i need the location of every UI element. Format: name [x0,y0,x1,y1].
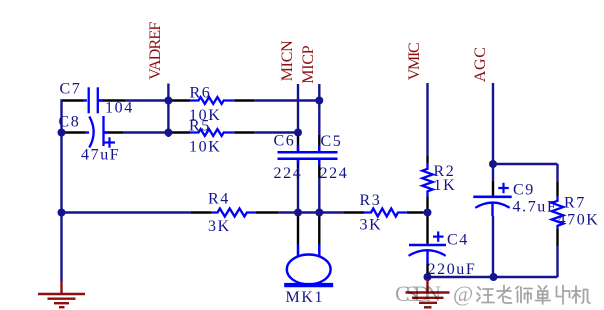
svg-text:MICN: MICN [279,40,296,81]
resistor R4 [211,209,256,217]
resistor R6 [190,97,234,104]
wire: R5 row from VADREF to MICN rail (y=132.5) [168,131,298,133]
node MICN rail x=298 [297,84,299,245]
svg-text:10K: 10K [189,139,221,156]
junction (168.4,100.5) [164,97,172,105]
svg-text:@: @ [453,281,473,306]
junction (61.5,212.5) [58,209,66,217]
wire: C8 row horizontal (y=132.5) [62,131,169,133]
svg-text:AGC: AGC [472,47,489,82]
wire: left vertical rail x=61.5 [60,99,62,281]
svg-text:104: 104 [105,100,134,117]
svg-text:470K: 470K [558,212,600,229]
svg-text:C5: C5 [321,133,343,150]
wire: R6 row from VADREF to MICP rail (y=100.5) [168,99,319,101]
svg-text:VMIC: VMIC [406,42,423,80]
junction (427.5,277) [424,273,432,281]
node VMIC rail x=427.5 [426,83,428,277]
node MICP rail x=319.3 [318,84,320,245]
ground (under C4) [406,279,450,307]
node AGC rail x=493 [492,83,494,277]
svg-text:VADREF: VADREF [147,22,164,80]
svg-text:224: 224 [320,165,349,182]
svg-text:C8: C8 [59,114,81,131]
capacitor C4 (polarized) [409,231,446,264]
svg-text:3K: 3K [208,218,231,235]
svg-text:R4: R4 [208,191,230,208]
junction (319.3,100.5) [315,97,323,105]
capacitor C7 [84,87,104,113]
wire: R7 rail x=557.5 [556,164,558,277]
片 [557,286,570,305]
junction (319.3,212.5) [315,209,323,217]
汪 [477,287,494,303]
svg-text:C7: C7 [60,81,82,98]
resistor R7 [552,197,564,229]
junction (298,132.5) [294,129,302,137]
老 [497,286,512,304]
capacitor C6 [278,145,319,165]
svg-text:R5: R5 [189,118,211,135]
svg-text:224: 224 [274,165,303,182]
capacitor C8 (polarized) [85,116,115,148]
wire: mid row right (R3) y=212.5 [319,211,427,213]
单 [536,286,551,304]
svg-text:4.7uF: 4.7uF [513,199,558,216]
师 [516,287,532,304]
svg-text:220uF: 220uF [428,261,477,278]
ground (left, under C8 rail) [38,281,85,308]
svg-text:3K: 3K [360,217,383,234]
resistor R3 [364,209,407,217]
wire: bottom right (y=277) [428,276,558,278]
junction (427.5,212.5) [424,209,432,217]
watermark CSDN @汪老师单片机 [395,281,590,306]
resistor R5 [190,129,234,136]
junction (168.4,132.5) [164,129,172,137]
svg-text:C6: C6 [274,133,296,150]
wire: AGC to R7 top (y=164) [493,163,558,165]
wire: C7 row horizontal (y=100.5) [62,99,169,101]
resistor R2 [422,164,432,197]
svg-text:C4: C4 [447,232,469,249]
svg-text:R6: R6 [190,85,212,102]
svg-text:CSDN: CSDN [395,281,441,306]
svg-text:47uF: 47uF [81,147,120,164]
microphone MK1 [284,245,333,286]
junction (493,164) [489,160,497,168]
svg-text:C9: C9 [513,182,535,199]
capacitor C9 (polarized) [473,183,511,216]
svg-text:R7: R7 [564,195,586,212]
capacitor C5 [299,145,338,165]
svg-text:MK1: MK1 [286,289,325,306]
svg-text:R3: R3 [360,192,382,209]
junction (493.5,277) [490,273,498,281]
机 [572,286,590,303]
node VADREF rail x=168.4 [167,84,169,138]
junction (61.5,132.5) [58,129,66,137]
svg-text:MICP: MICP [300,45,317,84]
wire: mid row left (R4) y=212.5 [62,211,320,213]
junction (298,212.5) [294,209,302,217]
svg-text:1K: 1K [434,177,457,194]
